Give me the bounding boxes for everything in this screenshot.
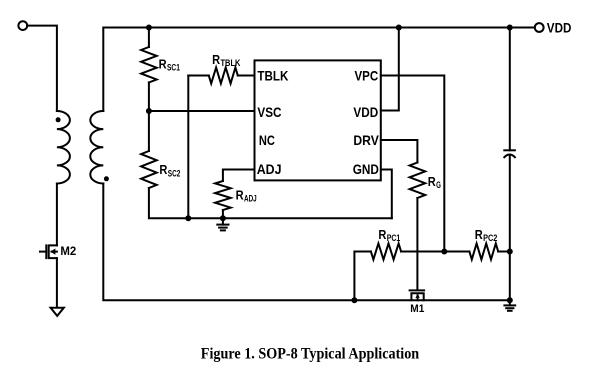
secondary polarity dot: [104, 176, 109, 181]
wire: [148, 28, 150, 48]
svg-text:PC2: PC2: [483, 233, 497, 243]
svg-text:R: R: [378, 228, 386, 242]
svg-text:M2: M2: [60, 244, 76, 258]
wire ground leg: [187, 76, 189, 219]
node: bus junction: [220, 215, 226, 221]
svg-text:VDD: VDD: [547, 20, 572, 36]
transistor M2: [49, 245, 57, 258]
wire to M1 gate: [416, 198, 418, 290]
resistor R_SC2: [141, 151, 157, 188]
wire: [509, 156, 511, 300]
wire: [148, 83, 150, 112]
svg-text:M1: M1: [410, 303, 424, 315]
transformer secondary winding: [90, 111, 103, 184]
svg-text:R: R: [236, 189, 244, 203]
wire: [188, 75, 209, 77]
resistor R_G: [410, 163, 426, 199]
transistor M1: [410, 289, 425, 291]
resistor R_PC2: [469, 244, 498, 260]
svg-text:R: R: [475, 228, 483, 242]
svg-text:SC2: SC2: [168, 168, 181, 178]
node: top rail junction: [507, 25, 513, 31]
capacitor C1: [504, 149, 515, 151]
wire DRV net: [381, 140, 418, 163]
ground symbol: [509, 300, 511, 305]
transformer primary winding: [57, 111, 70, 184]
ground symbol: [222, 218, 224, 224]
svg-text:ADJ: ADJ: [244, 194, 257, 204]
node: bus junction: [185, 215, 191, 221]
svg-text:R: R: [159, 163, 167, 177]
wire to TBLK pin: [238, 75, 255, 77]
svg-text:R: R: [159, 57, 167, 71]
wire VDD net: [381, 28, 399, 111]
VDD terminal: [535, 23, 544, 32]
svg-text:GND: GND: [353, 161, 379, 177]
input terminal: [18, 21, 27, 30]
svg-text:NC: NC: [259, 132, 275, 148]
node: VPC junction: [441, 249, 447, 255]
svg-text:R: R: [212, 53, 220, 67]
svg-text:ADJ: ADJ: [257, 161, 282, 177]
wire: [56, 184, 58, 246]
resistor R_TBLK: [209, 68, 238, 84]
wire VPC net: [381, 76, 445, 252]
node: VDD top rail junction: [396, 25, 402, 31]
svg-text:R: R: [428, 175, 436, 189]
wire: [222, 210, 224, 218]
op-amp/controller IC U1 (SOP-8): [255, 60, 381, 180]
bottom rail wire: [103, 184, 510, 301]
resistor R_SC1: [141, 47, 157, 83]
svg-text:G: G: [436, 180, 441, 190]
wire: [444, 251, 469, 253]
wire: [401, 251, 444, 253]
resistor R_PC1: [371, 244, 401, 260]
svg-text:TBLK: TBLK: [221, 58, 241, 68]
wire: [148, 111, 150, 151]
wire GND pin to bus: [381, 170, 392, 219]
wire: [498, 251, 510, 253]
node: bottom rail junction: [351, 297, 357, 303]
wire: [354, 252, 371, 301]
node: PC row junction: [507, 249, 513, 255]
svg-text:VPC: VPC: [355, 67, 379, 83]
svg-text:DRV: DRV: [353, 132, 379, 148]
wire: [27, 26, 57, 111]
wire: [149, 188, 392, 218]
svg-text:Figure 1. SOP-8 Typical Applic: Figure 1. SOP-8 Typical Application: [201, 346, 420, 363]
svg-text:TBLK: TBLK: [257, 67, 288, 83]
svg-text:SC1: SC1: [167, 62, 180, 72]
wire ADJ pin: [223, 170, 255, 182]
node: VSC junction: [146, 108, 152, 114]
svg-text:VSC: VSC: [257, 104, 281, 120]
wire: [509, 28, 511, 151]
ground arrow (open triangle): [51, 308, 64, 316]
svg-text:VDD: VDD: [353, 104, 378, 120]
resistor R_ADJ: [215, 181, 231, 210]
node: top rail junction: [146, 25, 152, 31]
wire VSC: [149, 110, 255, 112]
top rail wire: [103, 28, 535, 112]
wire: [56, 258, 58, 308]
node: bottom rail junction: [507, 297, 513, 303]
primary polarity dot: [56, 117, 61, 122]
svg-text:PC1: PC1: [387, 233, 401, 243]
